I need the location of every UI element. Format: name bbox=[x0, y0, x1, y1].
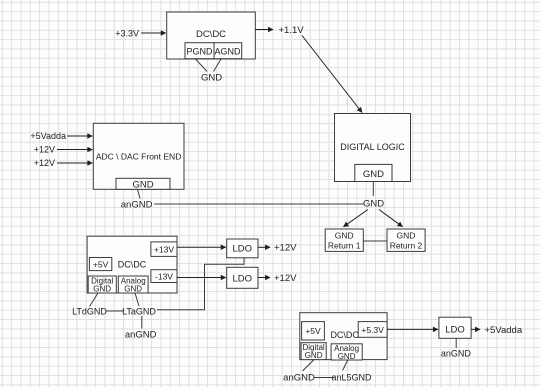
svg-text:DC\DC: DC\DC bbox=[330, 330, 359, 340]
svg-text:LDO: LDO bbox=[445, 325, 465, 336]
wire Digital GND pin of U7 down to anGND bbox=[303, 360, 315, 371]
pin box +5V of U7 bbox=[302, 322, 325, 340]
wire Analog GND pin of U4 down to LTaGND bbox=[135, 293, 139, 306]
svg-text:GND: GND bbox=[363, 199, 384, 210]
svg-text:anGND: anGND bbox=[441, 349, 472, 359]
svg-text:+3.3V: +3.3V bbox=[115, 29, 139, 39]
pin box Digital GND of U4 bbox=[88, 276, 116, 294]
wire PGND to GND node bbox=[196, 59, 208, 72]
pin box AGND of U1 bbox=[214, 43, 242, 59]
wire Digital GND pin of U4 down to LTdGND bbox=[90, 293, 99, 307]
wire LDO U8 output arrow bbox=[471, 328, 480, 330]
wire anGND to anL5GND bbox=[314, 377, 335, 379]
block GND Return 1 bbox=[325, 229, 363, 251]
pin box Analog GND of U4 bbox=[118, 276, 148, 294]
svg-text:LDO: LDO bbox=[233, 274, 253, 285]
svg-text:GND: GND bbox=[201, 73, 222, 84]
block U4 DC\DC (bottom-left converter) bbox=[87, 236, 177, 293]
svg-text:GND: GND bbox=[124, 285, 142, 294]
wire AGND to GND node bbox=[214, 59, 222, 72]
svg-text:-13V: -13V bbox=[155, 272, 173, 282]
svg-text:LDO: LDO bbox=[233, 244, 253, 255]
svg-text:AGND: AGND bbox=[214, 47, 241, 57]
pin box GND of U3 bbox=[116, 178, 170, 190]
pin box Analog GND of U7 bbox=[331, 344, 362, 361]
block U7 DC\DC (bottom-right converter) bbox=[300, 313, 387, 360]
wire LTaGND down to anGND bbox=[141, 316, 143, 329]
wire +12V arrow into U3 bbox=[57, 149, 92, 151]
block GND Return 2 bbox=[387, 229, 425, 251]
wire -13V to LDO U6 arrow bbox=[177, 277, 226, 279]
block U3 ADC \ DAC Front END bbox=[93, 123, 184, 189]
svg-text:Return 2: Return 2 bbox=[390, 241, 423, 251]
wire LDO U8 down to anGND bbox=[455, 338, 457, 348]
svg-text:GND: GND bbox=[305, 351, 323, 360]
wire +5Vadda arrow into U3 bbox=[67, 135, 92, 137]
svg-text:+12V: +12V bbox=[274, 273, 297, 284]
wire U2 GND pin down to GND node bbox=[372, 182, 374, 197]
svg-text:+13V: +13V bbox=[154, 244, 174, 254]
svg-text:PGND: PGND bbox=[186, 47, 213, 57]
wire LDO U5 ground return path to LTaGND bbox=[157, 258, 244, 310]
wire +13V to LDO U5 arrow bbox=[177, 246, 226, 248]
pin box +5.3V of U7 bbox=[358, 322, 387, 338]
svg-text:+5Vadda: +5Vadda bbox=[30, 131, 66, 141]
svg-text:GND: GND bbox=[93, 285, 111, 294]
svg-text:DC\DC: DC\DC bbox=[118, 259, 147, 269]
svg-text:ADC \ DAC Front END: ADC \ DAC Front END bbox=[96, 152, 182, 162]
svg-text:LTaGND: LTaGND bbox=[122, 307, 156, 317]
svg-text:+5V: +5V bbox=[305, 326, 321, 336]
svg-text:Return 1: Return 1 bbox=[328, 241, 361, 251]
svg-text:+5Vadda: +5Vadda bbox=[485, 325, 523, 336]
svg-text:GND: GND bbox=[132, 180, 153, 191]
svg-text:anL5GND: anL5GND bbox=[331, 373, 372, 383]
wire +5.3V to LDO U8 arrow bbox=[387, 328, 438, 330]
svg-text:+5.3V: +5.3V bbox=[361, 325, 384, 335]
svg-text:GND: GND bbox=[363, 169, 384, 180]
svg-text:DIGITAL LOGIC: DIGITAL LOGIC bbox=[340, 142, 405, 152]
wire between GND Return 1 and GND Return 2 bbox=[363, 240, 387, 242]
wire LDO U5 output arrow bbox=[258, 246, 270, 248]
svg-text:+1.1V: +1.1V bbox=[279, 25, 305, 36]
wire U3 GND pin down to anGND node bbox=[138, 189, 141, 198]
wire GND node to GND Return 2 arrow bbox=[379, 210, 403, 227]
svg-text:GND: GND bbox=[338, 352, 356, 361]
svg-text:GND: GND bbox=[397, 231, 416, 241]
wire Analog GND pin of U7 down to anL5GND bbox=[343, 360, 348, 371]
svg-text:GND: GND bbox=[335, 231, 354, 241]
svg-text:+5V: +5V bbox=[93, 259, 109, 269]
wire +3.3V input arrow into U1 bbox=[141, 32, 166, 34]
block U5 LDO (upper) bbox=[227, 239, 258, 258]
wire +1.1V output arrow from U1 bbox=[255, 29, 273, 31]
pin box GND of U2 bbox=[355, 164, 392, 181]
svg-text:+12V: +12V bbox=[34, 145, 55, 155]
pin box PGND of U1 bbox=[185, 43, 214, 59]
pin box +5V of U4 bbox=[89, 258, 111, 271]
pin box +13V of U4 bbox=[151, 242, 177, 257]
svg-text:+12V: +12V bbox=[274, 243, 297, 254]
block U6 LDO (lower) bbox=[227, 267, 258, 288]
block U8 LDO (bottom-right) bbox=[439, 317, 471, 338]
block U2 DIGITAL LOGIC bbox=[335, 114, 411, 182]
wire anGND bus from ADC block to GND node bbox=[154, 203, 364, 205]
svg-text:anGND: anGND bbox=[121, 200, 153, 211]
svg-text:LTdGND: LTdGND bbox=[72, 307, 107, 317]
wire LTdGND to LTaGND bbox=[106, 310, 125, 312]
pin box Digital GND of U7 bbox=[301, 343, 326, 360]
wire +12V arrow into U3 (second) bbox=[57, 162, 92, 164]
svg-text:+12V: +12V bbox=[34, 158, 55, 168]
wire GND node to GND Return 1 arrow bbox=[344, 210, 369, 227]
block U1 DC\DC (top converter) bbox=[167, 12, 256, 59]
svg-text:DC\DC: DC\DC bbox=[196, 29, 226, 40]
svg-text:anGND: anGND bbox=[125, 330, 157, 341]
wire LDO U6 output arrow bbox=[258, 277, 270, 279]
pin box -13V of U4 bbox=[151, 270, 177, 283]
svg-text:anGND: anGND bbox=[283, 373, 315, 384]
wire +1.1V to DIGITAL LOGIC diagonal arrow bbox=[302, 36, 362, 113]
